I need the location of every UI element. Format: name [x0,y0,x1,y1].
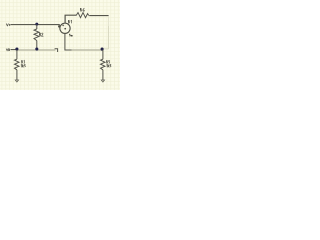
wire R6 to top right corner [89,15,108,17]
label R1 [22,60,25,63]
resistor R5 body [101,59,106,70]
resistor R5 bottom lead [102,70,104,80]
resistor R2 top lead [36,24,38,29]
resistor R6 body (horizontal) [76,13,89,18]
resistor R2 body [34,29,39,41]
wire rail left light part [16,49,56,51]
net label VB [6,49,9,51]
label R5 [107,60,110,63]
resistor R5 top lead [102,50,104,59]
junction dot right [101,48,104,51]
faint wire to junction [103,48,109,50]
resistor R2 bottom lead [36,41,38,50]
value label R1 [21,64,25,67]
wire source bottom lead and rail right segment [65,33,72,50]
faint wire down right side [108,16,110,26]
wire net V+ horizontal [11,24,60,26]
faint wire down lower part [108,26,110,49]
source B1 center dot [64,28,66,30]
resistor R1 top lead [16,50,18,59]
wire net VB rail left segment [11,49,16,51]
value label R5 [107,64,111,67]
label R6 [80,8,84,11]
wire rail right light part [72,49,103,51]
source B1 circle [60,23,70,33]
ground symbol right [101,80,104,82]
value label 5m [69,34,72,36]
junction dot on V+ wire [35,23,38,26]
label R2 [39,33,43,36]
junction dot VB left [15,47,18,50]
wire source top to resistor R6 [65,15,76,23]
wire terminal blob on circle left [58,25,61,28]
ground symbol left [15,80,18,82]
label B1 [68,20,71,23]
resistor R1 bottom lead [16,70,18,80]
stub down at end of VB rail [55,49,58,52]
net label V+ [6,24,10,26]
junction dot VB mid [35,47,38,50]
resistor R1 body [15,59,20,70]
source B1 plus sign [62,24,64,26]
